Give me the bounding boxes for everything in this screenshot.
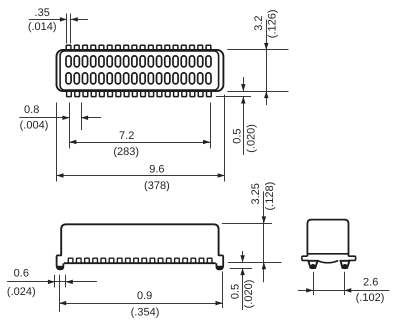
svg-text:(.024): (.024) xyxy=(7,286,36,298)
svg-text:2.6: 2.6 xyxy=(363,277,378,289)
svg-text:(.014): (.014) xyxy=(28,21,57,33)
svg-text:(.020): (.020) xyxy=(246,124,258,153)
svg-text:0.6: 0.6 xyxy=(14,268,29,280)
svg-text:.35: .35 xyxy=(35,7,50,19)
svg-text:9.6: 9.6 xyxy=(149,164,164,176)
svg-text:0.8: 0.8 xyxy=(24,104,39,116)
svg-text:7.2: 7.2 xyxy=(119,130,134,142)
svg-text:(378): (378) xyxy=(144,180,170,192)
svg-text:(283): (283) xyxy=(113,146,139,158)
svg-text:0.5: 0.5 xyxy=(231,128,243,143)
svg-text:3.25: 3.25 xyxy=(250,183,262,204)
svg-text:(.102): (.102) xyxy=(356,292,385,304)
svg-text:0.9: 0.9 xyxy=(137,290,152,302)
svg-text:0.5: 0.5 xyxy=(229,284,241,299)
svg-text:(.128): (.128) xyxy=(264,182,276,211)
svg-text:(.126): (.126) xyxy=(267,9,279,38)
svg-text:(.004): (.004) xyxy=(20,119,49,131)
svg-text:(.020): (.020) xyxy=(243,280,255,309)
svg-text:3.2: 3.2 xyxy=(253,15,265,30)
svg-text:(.354): (.354) xyxy=(131,306,160,318)
